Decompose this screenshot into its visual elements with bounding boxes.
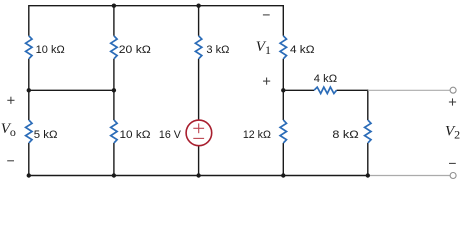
terminal lower right [450,173,456,179]
terminal upper right [450,87,456,93]
svg-text:10 kΩ: 10 kΩ [36,44,65,56]
plus sign Vo [7,97,14,104]
wire gray lead to upper terminal [368,89,450,91]
svg-text:12 kΩ: 12 kΩ [243,129,271,141]
plus sign V1 bottom [263,78,270,85]
minus sign V2 [449,162,456,164]
wire second vertical bottom segment [113,143,115,176]
minus sign Vo [7,160,14,162]
svg-text:5 kΩ: 5 kΩ [34,129,58,141]
wire fourth vertical middle segment [282,59,284,120]
junction bottom at fifth vertical [366,173,370,177]
wire left vertical middle segment [28,59,30,120]
resistor R2 20 kΩ [111,36,117,59]
svg-text:3 kΩ: 3 kΩ [206,44,229,56]
wire second vertical middle segment [113,59,115,120]
svg-text:V1: V1 [256,39,271,57]
resistor R3 3 kΩ [195,36,201,59]
wire third vertical middle segment [198,59,200,120]
svg-text:4 kΩ: 4 kΩ [314,73,337,85]
wire middle-left horizontal [29,89,114,91]
wire second vertical top segment [113,6,115,36]
wire left vertical top segment [28,5,30,36]
resistor R8 8 kΩ [365,120,371,143]
plus sign V2 [449,98,456,105]
junction bottom at fourth vertical [281,173,285,177]
junction bottom at third vertical [196,173,200,177]
resistor R9 4 kΩ horizontal [314,87,337,93]
junction mid at fourth vertical [281,88,285,92]
minus sign V1 top [263,14,270,16]
resistor R7 12 kΩ [280,120,286,143]
junction bottom at left vertical [27,173,31,177]
svg-text:16 V: 16 V [159,129,182,141]
wire top horizontal [29,5,283,7]
wire fifth vertical upper segment [367,90,369,120]
wire bottom horizontal [29,175,368,177]
junction mid-left at left vertical [27,88,31,92]
voltage source 16 V [186,120,212,146]
wire fourth vertical bottom segment [282,143,284,176]
svg-text:10 kΩ: 10 kΩ [120,129,151,141]
junction top at third vertical [196,3,200,7]
svg-text:8 kΩ: 8 kΩ [332,129,358,141]
wire left vertical bottom segment [28,143,30,176]
resistor R6 10 kΩ bottom [111,120,117,143]
wire fifth vertical lower segment [367,143,369,176]
resistor R4 4 kΩ with V1 [280,36,286,59]
wire third vertical bottom segment [198,146,200,176]
junction top at second vertical [112,3,116,7]
svg-text:4 kΩ: 4 kΩ [290,44,315,56]
junction mid-left at second vertical [112,88,116,92]
wire fourth vertical top segment [282,5,284,36]
svg-text:20 kΩ: 20 kΩ [119,44,151,56]
wire third vertical top segment [198,6,200,36]
wire gray lead to lower terminal [368,175,450,177]
wire middle-right horizontal right segment [337,89,368,91]
svg-text:V2: V2 [445,123,460,141]
resistor R5 5 kΩ [26,120,32,143]
svg-text:Vo: Vo [1,121,16,139]
wire middle-right horizontal left segment [283,89,314,91]
resistor R1 10 kΩ top-left [26,36,32,59]
junction bottom at second vertical [112,173,116,177]
